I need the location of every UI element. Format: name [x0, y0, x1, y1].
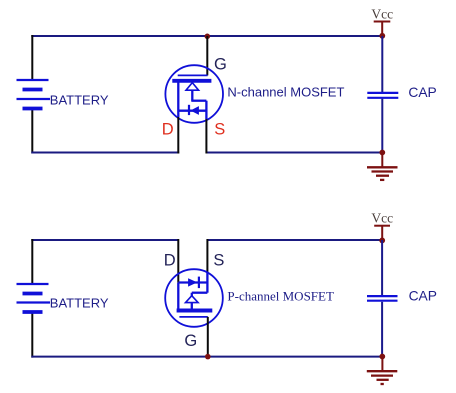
mosfet Q1: body-diode line — [178, 110, 206, 112]
svg-text:G: G — [214, 56, 227, 74]
ground (top) — [367, 153, 398, 180]
mosfet Q1: left vertical (drain side) — [177, 81, 179, 117]
mosfet Q1: stub to source — [191, 100, 206, 102]
wire: battery top lead — [31, 35, 33, 80]
ground (bottom) — [367, 357, 398, 385]
svg-text:Vcc: Vcc — [371, 7, 393, 22]
mosfet Q2: body-diode line — [178, 281, 207, 283]
node: ground junction dot (top) — [379, 150, 385, 156]
svg-text:N-channel MOSFET: N-channel MOSFET — [227, 85, 344, 100]
mosfet Q2: left vertical (drain side) — [177, 283, 179, 309]
mosfet Q1: channel bar (thick) — [172, 79, 211, 83]
mosfet Q2: stub down to arrow — [191, 293, 193, 296]
battery BT2 (bottom) — [17, 284, 51, 312]
wire: bottom-left rail (battery- to D) — [31, 152, 179, 154]
wire: top-right rail (S to Vcc node) — [207, 239, 383, 241]
capacitor C1 (top) — [367, 93, 398, 98]
wire: battery bottom lead — [31, 109, 33, 154]
wire: top-left rail (battery+ to D) — [31, 239, 178, 241]
node: gate junction dot on bottom rail — [205, 354, 211, 360]
wire: source lead to bottom-right rail — [205, 119, 207, 154]
svg-text:P-channel MOSFET: P-channel MOSFET — [227, 289, 334, 304]
mosfet Q1: arrow stub down — [191, 90, 193, 101]
mosfet Q1: diode cathode bar — [188, 105, 190, 115]
wire: drain lead from top-left rail — [177, 239, 179, 283]
wire: drain lead to bottom-left rail — [177, 117, 179, 154]
svg-text:S: S — [214, 120, 225, 138]
mosfet Q2: arrow stub to bar — [191, 303, 193, 309]
mosfet Q1: right vertical (source side) — [205, 101, 207, 119]
wire: source lead from top-right rail — [206, 239, 208, 272]
mosfet Q2: stub from source — [192, 292, 208, 294]
mosfet Q1 N-channel: body circle — [165, 65, 223, 123]
wire: cap top lead (bottom ckt) — [381, 240, 383, 295]
mosfet Q2: channel bar (thick) — [177, 309, 213, 313]
svg-text:CAP: CAP — [409, 288, 437, 303]
battery BT1 (top) — [17, 80, 51, 109]
svg-text:BATTERY: BATTERY — [50, 92, 109, 107]
mosfet Q2: diode cathode bar — [198, 277, 200, 289]
wire: gate lead (top rail down to gate) — [206, 36, 208, 75]
wire: gate lead down to bottom rail — [207, 317, 209, 357]
svg-text:S: S — [213, 252, 224, 270]
capacitor C2 (bottom) — [367, 296, 398, 301]
svg-text:BATTERY: BATTERY — [50, 295, 109, 310]
wire: battery bottom lead (bottom ckt) — [31, 312, 33, 358]
mosfet Q2 P-channel: body circle — [165, 269, 223, 327]
mosfet Q1: body diode (filled, pointing left) — [190, 106, 199, 115]
svg-text:G: G — [184, 332, 197, 350]
wire: bottom rail (common) — [31, 356, 382, 358]
node: Vcc junction dot (top) — [379, 33, 385, 39]
wire: cap bottom lead (top) — [381, 99, 383, 153]
svg-text:Vcc: Vcc — [371, 211, 393, 226]
node: Vcc junction dot (bottom) — [379, 238, 385, 244]
wire: cap top lead (top) — [381, 36, 383, 92]
mosfet Q2: body diode (filled, pointing right) — [188, 278, 197, 286]
wire: top rail (battery+ to Vcc node) — [31, 35, 382, 37]
svg-text:D: D — [162, 120, 174, 138]
mosfet Q2: substrate arrow (hollow, pointing up) — [186, 296, 199, 303]
svg-text:D: D — [164, 252, 176, 270]
mosfet Q1: substrate arrow (hollow, pointing up) — [186, 83, 199, 91]
power Vcc (top): bar — [374, 21, 391, 23]
power Vcc (bottom): bar — [374, 225, 390, 227]
node: gate junction dot on top rail — [205, 34, 211, 40]
svg-text:CAP: CAP — [408, 85, 436, 100]
wire: bottom-right rail (S to ground node) — [206, 152, 383, 154]
power Vcc (top): stem — [381, 22, 383, 37]
power Vcc (bottom): stem — [381, 226, 383, 241]
mosfet Q1: gate line (thin) — [178, 74, 208, 76]
mosfet Q2: right vertical (source side) — [206, 272, 208, 293]
node: ground junction dot (bottom) — [379, 354, 385, 360]
wire: battery top lead (bottom ckt) — [31, 239, 33, 284]
wire: cap bottom lead (bottom ckt) — [381, 302, 383, 357]
mosfet Q2: gate line (thin) — [179, 316, 207, 318]
